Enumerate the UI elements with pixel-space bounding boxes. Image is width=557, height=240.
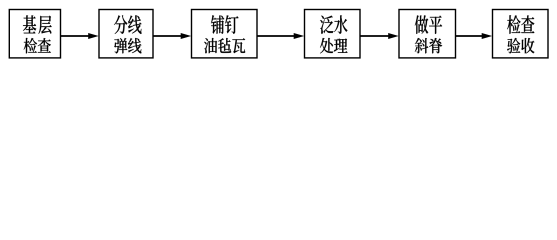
process box 4: 泛水处理 — [305, 10, 361, 58]
process box 1: 基层检查 — [9, 10, 60, 58]
flow arrow 2: box 2 to box 3 — [153, 33, 191, 39]
flow arrow 3: box 3 to box 4 — [257, 33, 304, 39]
process box 2: 分线弹线 — [99, 10, 153, 58]
flow arrow 5: box 5 to box 6 — [456, 33, 493, 39]
flow arrow 1: box 1 to box 2 — [61, 33, 99, 39]
flowchart diagram: roofing process, 6 boxes with arrows — [0, 0, 557, 67]
process box 5: 做平斜脊 — [399, 10, 456, 58]
process box 6: 检查验收 — [493, 10, 549, 58]
flow arrow 4: box 4 to box 5 — [360, 33, 399, 39]
process box 3: 铺钉油毡瓦 — [192, 10, 258, 58]
